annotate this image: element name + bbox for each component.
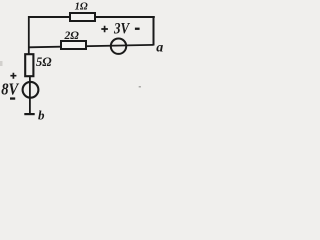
svg-text:a: a xyxy=(156,41,163,56)
svg-text:1Ω: 1Ω xyxy=(75,1,88,12)
wire top (top-left corner to top-right corner) xyxy=(28,16,155,18)
resistor R2 2-ohm body xyxy=(61,41,86,49)
label minus of V2 xyxy=(10,97,15,99)
source V2 8V circle xyxy=(23,82,39,98)
svg-text:8V: 8V xyxy=(1,80,19,99)
svg-text:2Ω: 2Ω xyxy=(64,30,80,42)
label minus of V1 xyxy=(135,28,140,30)
scan speck xyxy=(139,86,141,88)
source V1 3V circle xyxy=(111,39,126,54)
wire left vertical (top-left corner down to 5-ohm resistor) xyxy=(28,16,30,54)
svg-text:b: b xyxy=(38,108,45,121)
label plus of V1 xyxy=(101,26,108,33)
terminal bar at node b xyxy=(24,113,34,115)
wire middle horizontal (through 3V source) xyxy=(29,45,154,47)
resistor R3 5-ohm body (vertical) xyxy=(25,54,33,76)
label plus of V2 xyxy=(10,73,16,79)
svg-text:3V: 3V xyxy=(113,20,130,37)
resistor R1 1-ohm body xyxy=(70,13,95,21)
wire right vertical (top-right corner down to node a) xyxy=(153,16,155,46)
wire bottom vertical (5-ohm through 8V source to terminal b) xyxy=(29,77,31,114)
svg-text:5Ω: 5Ω xyxy=(36,55,52,69)
scan streak left edge xyxy=(0,61,3,66)
